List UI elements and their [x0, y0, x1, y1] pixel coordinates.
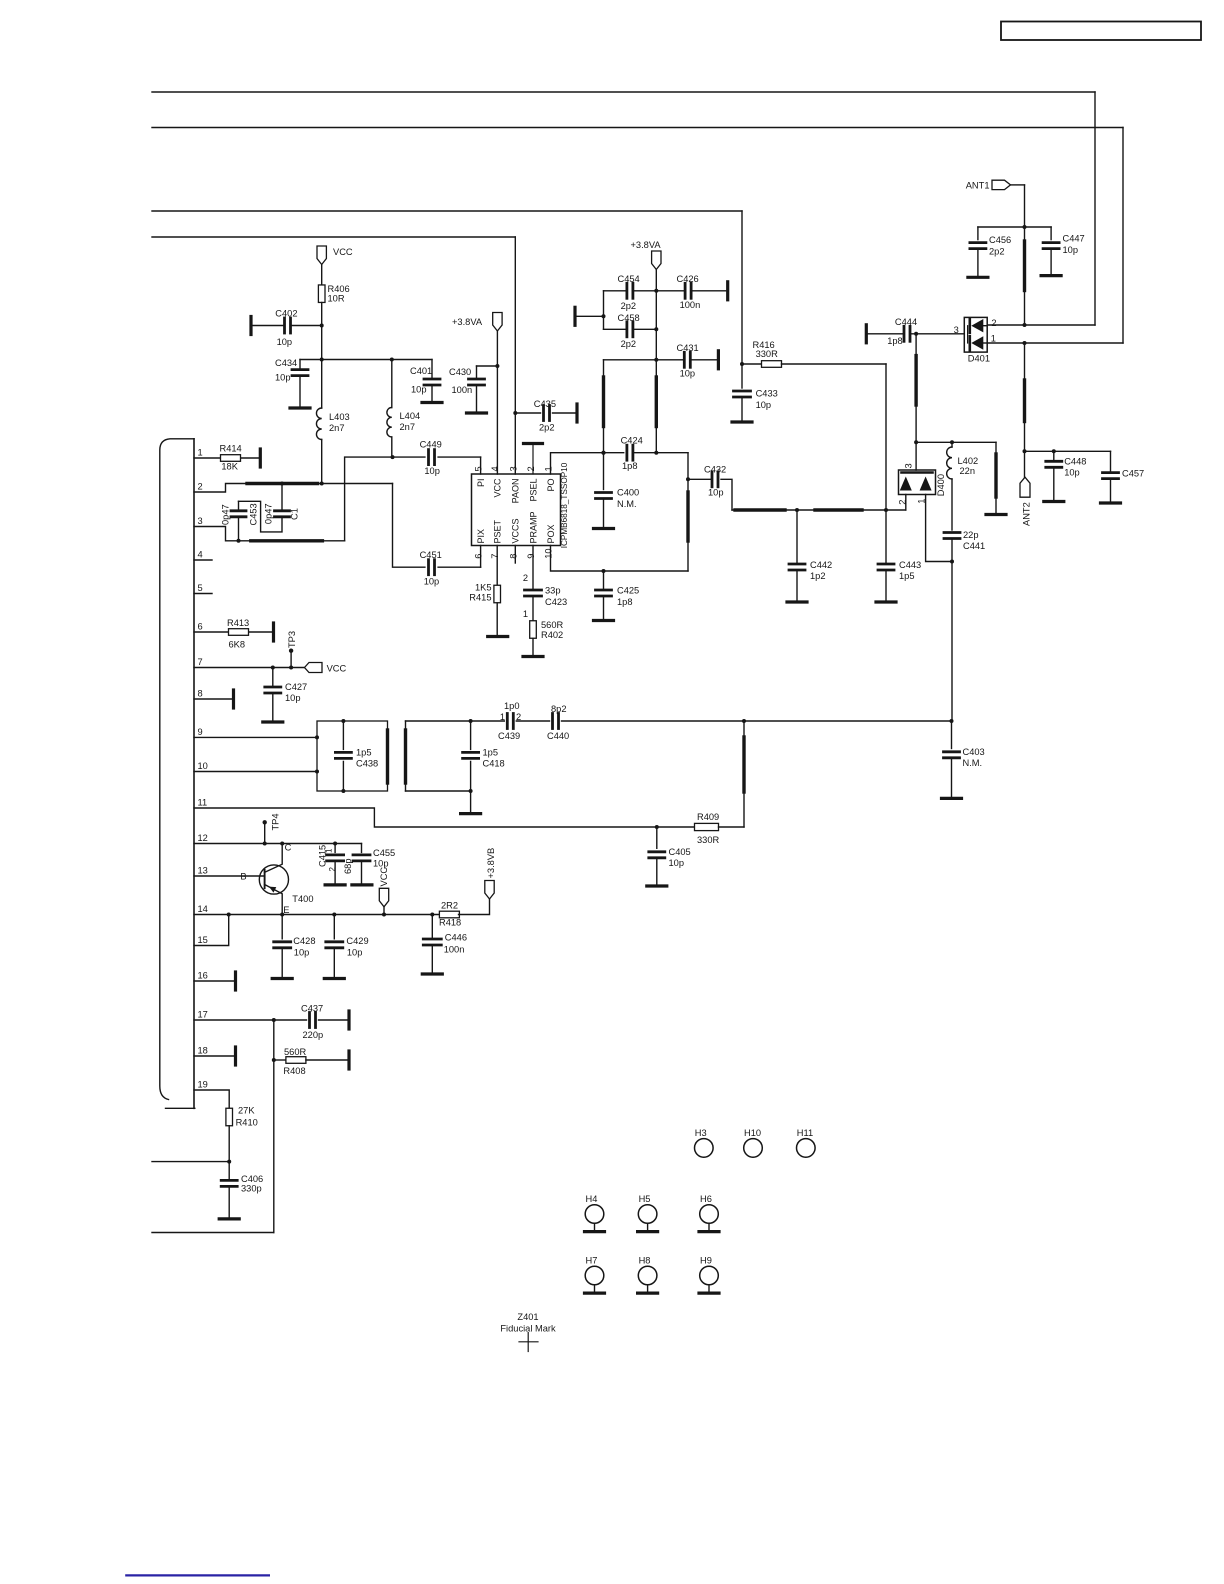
svg-text:10R: 10R [328, 294, 345, 304]
wire L404 to C449 line [391, 437, 393, 457]
resistor R402 560R [530, 620, 564, 640]
svg-text:1: 1 [198, 448, 203, 458]
wire net to D401 pin2 (top line 1) [152, 92, 1095, 325]
connector pin 11 number [198, 798, 208, 808]
wire +3.8VA to IC pin4 VCC [495, 331, 499, 474]
svg-text:PSET: PSET [493, 519, 503, 543]
wire C426 and termination [656, 282, 727, 300]
capacitor C435 2p2 [534, 399, 556, 433]
svg-text:2: 2 [526, 466, 536, 471]
ground under C427 [263, 693, 283, 722]
svg-text:2: 2 [198, 482, 203, 492]
capacitor C434 10p [275, 358, 308, 382]
title block box (empty) [1001, 22, 1201, 41]
svg-text:POX: POX [546, 524, 556, 543]
grounded microstrip stub right of L402 [986, 442, 1006, 514]
wire ANT2 node right [1025, 449, 1111, 453]
svg-text:H9: H9 [700, 1256, 712, 1266]
wire C429 tap [333, 915, 335, 939]
svg-text:16: 16 [198, 971, 208, 981]
capacitor C453 0p47 [220, 503, 258, 525]
wire R408 termination [306, 1051, 349, 1069]
wire VCC flag to R406 [321, 265, 323, 286]
svg-text:VCCS: VCCS [511, 518, 521, 543]
svg-text:1K5: 1K5 [475, 583, 492, 593]
ground under C447 [1041, 249, 1061, 276]
ground under C442 [787, 570, 807, 602]
ground under C428 [272, 948, 292, 979]
capacitor C1 0p47 [264, 503, 300, 524]
svg-text:2p2: 2p2 [539, 423, 555, 433]
svg-text:2: 2 [991, 318, 996, 328]
capacitor C406 330p [221, 1174, 263, 1194]
capacitor C441 22p [944, 530, 985, 551]
svg-text:8: 8 [198, 689, 203, 699]
resistor R416 330R [753, 340, 782, 367]
svg-text:+3.8VA: +3.8VA [631, 240, 662, 250]
svg-text:C434: C434 [275, 358, 297, 368]
svg-text:R415: R415 [469, 593, 491, 603]
wire pin16 termination [194, 972, 236, 990]
svg-text:5: 5 [198, 583, 203, 593]
wire pin14 emitter net [194, 913, 440, 917]
capacitor C437 220p [301, 1004, 323, 1041]
wire pin9 to box [194, 735, 319, 739]
wire C424 to +3.8VA node [633, 451, 688, 455]
wire pin5 stub [194, 593, 212, 595]
ground under C405 [647, 858, 667, 886]
svg-text:VCC: VCC [493, 478, 503, 498]
connector pin 2 number [198, 482, 203, 492]
capacitor C449 10p [420, 440, 442, 476]
wire C455 top lead [361, 844, 363, 853]
resistor R408 560R [283, 1047, 306, 1076]
wire pin15 riser to pin14 net [194, 915, 229, 946]
resistor R415 1K5 [469, 583, 500, 603]
inductor L402 22n [947, 447, 979, 479]
svg-text:TP4: TP4 [271, 813, 281, 830]
svg-text:Z401: Z401 [517, 1312, 538, 1322]
svg-text:C444: C444 [895, 317, 917, 327]
resistor R410 27K [226, 1106, 258, 1128]
svg-text:H6: H6 [700, 1194, 712, 1204]
mounting hole H9 [699, 1256, 719, 1294]
svg-text:R418: R418 [439, 918, 461, 928]
wire ANT1 down with microstrip [1011, 185, 1027, 325]
svg-text:4: 4 [198, 550, 203, 560]
wire IC pin1 PO to C424 [551, 451, 624, 474]
capacitor C458 2p2 [618, 313, 640, 349]
fiducial Z401 [500, 1312, 556, 1352]
wire D400 pin2 to output line [905, 495, 907, 511]
svg-text:VCC: VCC [333, 247, 353, 257]
capacitor C433 10p [734, 389, 778, 411]
capacitor C429 10p [326, 936, 369, 957]
svg-text:2p2: 2p2 [989, 247, 1005, 257]
connector pin 6 number [198, 622, 203, 632]
wire C402 leads [253, 325, 322, 327]
wire C454 leads [604, 290, 657, 292]
svg-text:3: 3 [198, 516, 203, 526]
svg-text:27K: 27K [238, 1106, 255, 1116]
wire D400 pin1 riser to C439 line [951, 562, 953, 722]
antenna flag ANT1 [966, 180, 1011, 190]
svg-text:H3: H3 [695, 1128, 707, 1138]
svg-text:1: 1 [500, 712, 505, 722]
wire pin4 stub [194, 559, 212, 561]
svg-text:12: 12 [198, 833, 208, 843]
svg-text:220p: 220p [303, 1030, 324, 1040]
wire pin13 to T400 base [194, 875, 265, 877]
svg-text:ANT1: ANT1 [966, 181, 990, 191]
termination bar after C435 [553, 404, 578, 422]
mounting hole H8 [638, 1256, 658, 1294]
svg-text:330R: 330R [697, 835, 720, 845]
svg-text:C458: C458 [618, 313, 640, 323]
svg-text:9: 9 [526, 554, 536, 559]
svg-text:C432: C432 [704, 465, 726, 475]
svg-text:C433: C433 [756, 389, 778, 399]
svg-text:22p: 22p [963, 530, 979, 540]
capacitor C443 1p5 [878, 560, 921, 581]
svg-text:18K: 18K [221, 462, 238, 472]
svg-text:5: 5 [474, 466, 484, 471]
ground under C457 [1101, 479, 1121, 503]
wire line3 to R416 [740, 362, 762, 366]
svg-text:9: 9 [198, 727, 203, 737]
svg-text:10p: 10p [1064, 468, 1080, 478]
resistor R418 2R2 [439, 901, 461, 928]
mounting hole H4 [585, 1194, 605, 1232]
wire C451 to IC pin6 PIX [438, 546, 481, 568]
capacitor C448 10p [1046, 457, 1087, 478]
svg-text:1p5: 1p5 [483, 748, 499, 758]
ground under C425 [594, 596, 614, 621]
wire pin6 to R413 [194, 631, 272, 633]
svg-text:L403: L403 [329, 412, 350, 422]
resistor R414 18K [220, 444, 242, 472]
power flag +3.8VA left [452, 313, 502, 332]
svg-text:2: 2 [523, 573, 528, 583]
svg-text:10p: 10p [708, 488, 724, 498]
wire C438 leads [342, 721, 344, 791]
wire C457 tap [1110, 451, 1112, 472]
ground under C434 [290, 376, 310, 408]
svg-text:10p: 10p [275, 372, 291, 382]
wire C427 tap [272, 668, 274, 688]
wire pin10 to box [194, 770, 319, 774]
wire to ANT2 flag [1024, 451, 1026, 477]
capacitor C405 10p [649, 847, 691, 868]
wire C443 tap [885, 510, 887, 564]
svg-text:TP3: TP3 [287, 631, 297, 648]
svg-text:C457: C457 [1122, 469, 1144, 479]
resistor R406 10R [318, 284, 349, 304]
svg-text:18: 18 [198, 1046, 208, 1056]
svg-text:C446: C446 [445, 933, 467, 943]
power flag VCC top [317, 246, 353, 265]
svg-text:C449: C449 [420, 440, 442, 450]
capacitor C401 10p [410, 366, 440, 395]
wire pin19 to R410 [194, 1090, 229, 1108]
ground under R415 [488, 603, 508, 637]
svg-text:19: 19 [198, 1080, 208, 1090]
svg-text:C451: C451 [420, 550, 442, 560]
wire D400 pin1 down [926, 495, 954, 564]
inductor L404 2n7 [387, 408, 420, 438]
termination bar after R413 [272, 623, 275, 641]
power flag +3.8VA right [631, 240, 662, 270]
capacitor C432 10p [704, 465, 726, 498]
svg-text:N.M.: N.M. [963, 758, 983, 768]
termination bar left of C454/C458 [575, 307, 604, 325]
wire C1 top lead [281, 484, 283, 511]
svg-text:10p: 10p [1063, 245, 1079, 255]
connector pin 9 number [198, 727, 203, 737]
wire IC pin8 VCCS stub [514, 546, 516, 564]
svg-text:C427: C427 [285, 682, 307, 692]
mounting hole H5 [638, 1194, 658, 1232]
mounting hole H11 [797, 1128, 816, 1157]
svg-text:C: C [285, 843, 292, 853]
svg-text:VCC: VCC [327, 663, 347, 673]
wire C444 to D401 pin3 [910, 325, 964, 336]
capacitor C423 33p [525, 586, 568, 608]
ground under C430 [467, 385, 487, 413]
wire C400 tap [603, 453, 605, 490]
connector pin 18 number [198, 1046, 208, 1056]
connector pin 12 number [198, 833, 208, 843]
wire C432 to output line [721, 479, 732, 510]
svg-text:C428: C428 [293, 936, 315, 946]
svg-text:C455: C455 [373, 848, 395, 858]
wire IC pin9 PRAMP to C423 [523, 546, 533, 591]
wire net pin2 bar [194, 482, 425, 568]
svg-text:N.M.: N.M. [617, 499, 637, 509]
svg-text:7: 7 [490, 554, 500, 559]
ground under C418 [461, 791, 481, 814]
capacitor C424 1p8 [621, 436, 643, 471]
wire C405 tap [656, 827, 658, 848]
testpoint TP4 [263, 813, 281, 843]
svg-text:100n: 100n [452, 385, 473, 395]
wire R409 riser with microstrip [743, 721, 745, 827]
diode D401 [964, 317, 996, 363]
wire C418 leads [469, 719, 473, 791]
svg-text:C448: C448 [1064, 457, 1086, 467]
svg-text:3: 3 [508, 466, 518, 471]
coupler box with C418 [406, 721, 473, 793]
mounting hole H7 [585, 1256, 605, 1294]
svg-text:10p: 10p [294, 947, 310, 957]
connector pin 3 number [198, 516, 203, 526]
capacitor C457 [1103, 469, 1145, 479]
wire C430 tap [477, 366, 498, 379]
svg-text:6: 6 [198, 622, 203, 632]
svg-text:ICPMB6818_TSSOP10: ICPMB6818_TSSOP10 [560, 462, 569, 548]
capacitor C440 8p2 [547, 704, 569, 741]
svg-text:10p: 10p [411, 385, 427, 395]
connector pin 15 number [198, 935, 208, 945]
svg-text:H8: H8 [639, 1256, 651, 1266]
capacitor C447 10p [1043, 234, 1085, 256]
transistor T400 PNP [240, 843, 313, 916]
connector pin 13 number [198, 866, 208, 876]
ground under C429 [324, 948, 344, 979]
capacitor C455 10p [353, 848, 395, 869]
svg-text:C453: C453 [248, 503, 258, 525]
wire C458 leads [604, 328, 657, 330]
svg-text:1p5: 1p5 [356, 748, 372, 758]
wire to C456 [978, 227, 1025, 240]
wire left choke branch with microstrip [602, 360, 657, 455]
svg-text:C456: C456 [989, 235, 1011, 245]
svg-text:2n7: 2n7 [400, 422, 416, 432]
wire C446 tap [431, 915, 433, 939]
connector pin 16 number [198, 971, 208, 981]
svg-text:100n: 100n [444, 945, 465, 955]
svg-text:T400: T400 [292, 894, 313, 904]
wire net to D401 pin1 (top line 2) [152, 128, 1123, 344]
wire C437 termination [319, 1011, 350, 1029]
svg-text:C435: C435 [534, 399, 556, 409]
svg-text:10p: 10p [680, 369, 696, 379]
connector pin 19 number [198, 1080, 208, 1090]
wire pin12 collector net [194, 842, 362, 846]
ground under C415 [325, 861, 345, 885]
svg-text:R413: R413 [227, 618, 249, 628]
capacitor C444 1p8 [887, 317, 917, 346]
svg-text:2R2: 2R2 [441, 901, 458, 911]
mounting hole H3 [695, 1128, 714, 1157]
wire C425 tap [603, 571, 605, 590]
svg-text:0p47: 0p47 [220, 504, 230, 525]
svg-text:+3.8VB: +3.8VB [486, 848, 496, 879]
svg-text:2p2: 2p2 [621, 339, 637, 349]
svg-text:R406: R406 [328, 284, 350, 294]
ground under C406 [219, 1186, 239, 1219]
wire +3.8VA feed down with microstrip [654, 270, 658, 453]
svg-text:1p8: 1p8 [887, 336, 903, 346]
svg-text:C443: C443 [899, 560, 921, 570]
wire L403 to pin2 bar [321, 440, 323, 484]
capacitor C431 10p [677, 343, 699, 379]
svg-text:33p: 33p [545, 586, 561, 596]
wire C415 top lead [317, 844, 337, 872]
wire C449 to IC pin5 PI [438, 457, 481, 474]
svg-text:1p8: 1p8 [617, 597, 633, 607]
termination bar and wire to C444 [866, 325, 904, 343]
capacitor C426 100n [677, 274, 701, 310]
svg-text:C431: C431 [677, 343, 699, 353]
svg-text:D400: D400 [936, 474, 946, 496]
connector body line [193, 439, 195, 1109]
svg-text:560R: 560R [284, 1047, 307, 1057]
svg-text:C454: C454 [618, 274, 640, 284]
wire to L402 [951, 442, 953, 447]
resistor R409 330R [695, 812, 720, 845]
wire C434-C401 line [300, 358, 432, 380]
wire to C433 [741, 364, 743, 388]
svg-text:C403: C403 [963, 747, 985, 757]
svg-text:1p2: 1p2 [810, 571, 826, 581]
capacitor C425 1p8 [596, 586, 640, 608]
svg-text:C447: C447 [1063, 234, 1085, 244]
wire to C432 [688, 478, 712, 480]
capacitor C456 2p2 [970, 235, 1011, 257]
svg-text:17: 17 [198, 1010, 208, 1020]
svg-text:560R: 560R [541, 620, 564, 630]
wire R409 right [719, 826, 745, 828]
wire pin7 VCC net [194, 666, 305, 670]
IC U400 ICPMB6818_TSSOP10 [472, 462, 570, 559]
testpoint TP3 [287, 631, 297, 668]
svg-text:330p: 330p [241, 1184, 262, 1194]
capacitor C418 1p5 [463, 748, 505, 769]
wire D401 pin2 net [987, 323, 1095, 327]
ground under C400 [594, 499, 614, 529]
inductor L403 2n7 [316, 408, 349, 440]
svg-text:PAON: PAON [511, 479, 521, 504]
connector pin 1 number [198, 448, 203, 458]
connector pin 7 number [198, 657, 203, 667]
svg-text:C424: C424 [621, 436, 643, 446]
wire net pin3 bar [194, 455, 425, 543]
resistor R413 6K8 [227, 618, 249, 649]
svg-text:330R: 330R [756, 349, 779, 359]
power flag VCC at pin14 [379, 867, 389, 915]
svg-text:10p: 10p [424, 576, 440, 586]
svg-text:R410: R410 [236, 1118, 258, 1128]
coupler box with C438 [317, 719, 388, 793]
svg-text:R414: R414 [220, 444, 242, 454]
connector pin 4 number [198, 550, 203, 560]
wire C428 tap [281, 915, 283, 939]
wire pin11 to R409 [194, 808, 694, 829]
wire C448 tap [1053, 451, 1055, 461]
svg-text:H4: H4 [586, 1194, 598, 1204]
mounting hole H10 [744, 1128, 763, 1157]
svg-text:C426: C426 [677, 274, 699, 284]
svg-text:PI: PI [476, 479, 486, 488]
connector edge brace [160, 439, 195, 1109]
capacitor C430 100n [449, 367, 485, 395]
svg-text:10p: 10p [669, 858, 685, 868]
svg-text:4: 4 [490, 466, 500, 471]
svg-text:1p8: 1p8 [622, 461, 638, 471]
svg-text:2: 2 [328, 867, 337, 872]
wire C403 tap [951, 721, 953, 749]
power flag VCC at pin7 [305, 663, 347, 674]
wire C453-C1 link [239, 501, 283, 532]
wire pin17 to C437 [194, 1018, 307, 1022]
wire L402 to C441 [951, 479, 953, 530]
connector pin 17 number [198, 1010, 208, 1020]
wire IC pin7 PSET to R415 [496, 546, 498, 586]
svg-text:PSEL: PSEL [528, 479, 538, 502]
wire box2 top to C439 [406, 720, 505, 722]
svg-text:C400: C400 [617, 488, 639, 498]
wire to C447 [1025, 227, 1052, 240]
svg-text:C429: C429 [346, 936, 368, 946]
wire net to R416 (top line 3) [152, 211, 742, 364]
capacitor C438 1p5 [335, 748, 378, 769]
svg-text:C423: C423 [545, 597, 567, 607]
svg-text:1: 1 [544, 466, 554, 471]
svg-text:C1: C1 [290, 508, 300, 520]
ground under C446 [422, 945, 442, 974]
svg-text:C406: C406 [241, 1174, 263, 1184]
